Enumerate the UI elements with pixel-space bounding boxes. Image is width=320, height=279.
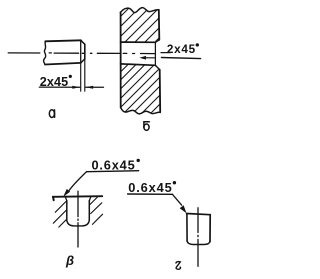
hole top edge	[121, 41, 156, 43]
arrowhead leader B left-pointing	[139, 56, 146, 60]
hole chamfer slant bottom	[155, 65, 159, 69]
shaft bottom edge	[45, 63, 81, 65]
degree dot fig g	[173, 181, 176, 184]
hole left edge	[66, 201, 68, 220]
block left edge	[120, 12, 122, 107]
arrowhead dim a left-pointing	[85, 86, 93, 89]
degree dot fig v	[137, 159, 140, 162]
label underline v	[87, 171, 139, 172]
centerline fig v vertical	[77, 191, 79, 247]
hole right edge	[88, 201, 90, 220]
svg-text:β: β	[65, 253, 74, 268]
hole chamfer line	[154, 42, 156, 65]
dimension tick right of face	[161, 52, 170, 54]
label underline g	[128, 193, 173, 195]
figure v: blind hole chamfer section	[53, 171, 139, 247]
hole mouth chamfer left	[65, 197, 66, 201]
degree dot fig a	[69, 75, 72, 78]
centerline fig a	[8, 52, 92, 54]
shaft break line (left edge)	[44, 41, 46, 64]
figure g: stud end chamfer	[128, 194, 211, 266]
caption B stem	[143, 122, 145, 128]
arrowhead leader g	[180, 205, 187, 213]
arrowhead leader v	[63, 189, 70, 197]
hatch left of hole	[53, 201, 66, 227]
degree dot fig B	[196, 43, 199, 46]
hatch right of hole	[90, 197, 103, 224]
extension line right face	[84, 60, 86, 92]
hole bottom edge	[121, 64, 156, 65]
caption a bowl	[49, 110, 54, 118]
chamfer slant bottom	[81, 59, 85, 63]
figure a: shaft end with chamfer	[8, 40, 103, 91]
part right edge	[209, 215, 211, 242]
block right edge upper	[158, 10, 161, 40]
hole chamfer slant top	[155, 40, 159, 43]
top surface line	[53, 195, 103, 198]
dimension line right tail	[85, 86, 103, 88]
chamfer slant top	[81, 40, 85, 44]
svg-text:2x45: 2x45	[40, 75, 68, 89]
arrowhead dim a right-pointing	[72, 86, 80, 89]
leader tail inside hole	[145, 57, 156, 59]
block top break wavy	[120, 8, 158, 13]
part top edge	[187, 214, 211, 215]
caption B top bar	[144, 121, 149, 123]
part bottom curve	[187, 241, 210, 244]
block bottom break wavy	[121, 108, 161, 114]
hole mouth chamfer right	[89, 197, 90, 201]
caption a stem	[54, 110, 56, 117]
chamfer line	[80, 40, 82, 63]
hatch lower block	[78, 64, 201, 116]
caption B bowl	[144, 124, 149, 130]
caption g	[176, 262, 181, 270]
label underline B	[161, 58, 200, 59]
shaft right face	[84, 44, 86, 59]
block right edge lower	[159, 70, 162, 113]
svg-text:2x45: 2x45	[167, 43, 196, 56]
leader line label v	[69, 172, 87, 192]
dimension line left with underline	[39, 86, 80, 88]
leader line label g	[172, 194, 181, 205]
hole bottom bowl	[67, 220, 90, 226]
centerline fig g vertical	[197, 208, 199, 266]
shaft top edge	[45, 40, 81, 41]
extension line chamfer	[80, 64, 82, 92]
centerline fig B	[97, 52, 155, 54]
surface end tick	[52, 197, 55, 200]
hatch upper block	[92, 4, 193, 45]
part left edge	[186, 214, 188, 242]
figure B: hole chamfer in hatched block	[78, 4, 201, 115]
svg-text:0.6x45: 0.6x45	[128, 180, 172, 195]
svg-text:0.6x45: 0.6x45	[92, 157, 135, 172]
